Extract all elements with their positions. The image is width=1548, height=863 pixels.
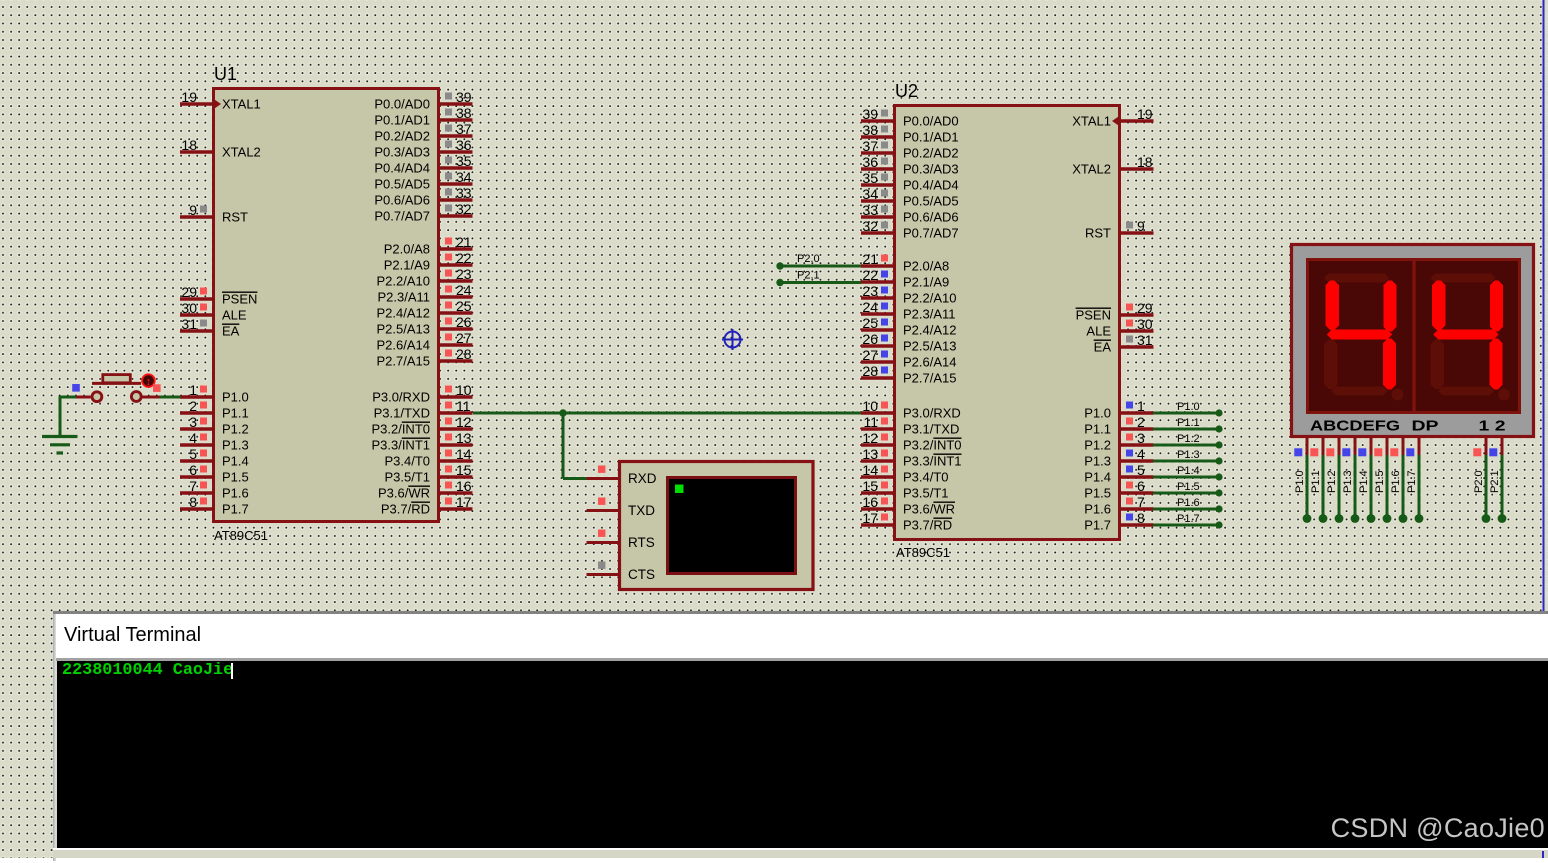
- U2 pin 26 P2.5/A13: [861, 331, 957, 354]
- svg-text:P3.0/RXD: P3.0/RXD: [372, 390, 430, 405]
- svg-text:P2.4/A12: P2.4/A12: [377, 306, 431, 321]
- svg-text:P0.5/AD5: P0.5/AD5: [903, 194, 959, 209]
- svg-text:15: 15: [862, 478, 878, 494]
- svg-text:34: 34: [456, 169, 472, 185]
- wire button to U1 pin 1: [160, 396, 181, 399]
- button interactive marker (red toggle): [142, 374, 155, 387]
- svg-text:P2.7/A15: P2.7/A15: [903, 371, 957, 386]
- svg-text:P3.5/T1: P3.5/T1: [903, 486, 949, 501]
- svg-text:25: 25: [862, 315, 878, 331]
- svg-text:29: 29: [1137, 300, 1153, 316]
- svg-text:39: 39: [862, 106, 878, 122]
- svg-text:P0.6/AD6: P0.6/AD6: [374, 193, 430, 208]
- svg-text:2: 2: [1137, 414, 1145, 430]
- junction dot net P1.7: [1215, 521, 1222, 528]
- svg-text:P3.4/T0: P3.4/T0: [903, 470, 949, 485]
- U2 pin 3 P1.2: [1084, 430, 1153, 453]
- svg-text:CTS: CTS: [628, 567, 655, 582]
- svg-text:1: 1: [1137, 398, 1145, 414]
- svg-text:P3.3/INT1: P3.3/INT1: [371, 438, 430, 453]
- svg-text:P0.4/AD4: P0.4/AD4: [374, 161, 430, 176]
- svg-text:1: 1: [189, 382, 197, 398]
- svg-text:P0.7/AD7: P0.7/AD7: [903, 226, 959, 241]
- U1 pin 23 P2.2/A10: [377, 266, 473, 289]
- svg-text:9: 9: [189, 202, 197, 218]
- U1 pin 30 ALE: [180, 300, 247, 323]
- svg-text:6: 6: [189, 462, 197, 478]
- svg-text:P1.2: P1.2: [1177, 433, 1200, 445]
- svg-text:1 2: 1 2: [1479, 418, 1506, 435]
- svg-text:AT89C51: AT89C51: [896, 545, 950, 560]
- U2 pin 28 P2.7/A15: [861, 363, 957, 386]
- U1 pin 9 RST: [180, 202, 248, 225]
- svg-text:36: 36: [456, 137, 472, 153]
- svg-text:P2.5/A13: P2.5/A13: [377, 322, 431, 337]
- U2 pin 6 P1.5: [1084, 478, 1153, 501]
- svg-text:P0.7/AD7: P0.7/AD7: [374, 209, 430, 224]
- 7-seg pin A with net P1.0: [1294, 438, 1311, 523]
- wire net P2.0 at U2 pin 21: [780, 265, 861, 268]
- svg-text:32: 32: [456, 201, 472, 217]
- svg-text:P1.1: P1.1: [1177, 417, 1200, 429]
- svg-text:2: 2: [189, 398, 197, 414]
- svg-text:5: 5: [189, 446, 197, 462]
- svg-text:ABCDEFG: ABCDEFG: [1310, 418, 1400, 435]
- svg-text:P3.0/RXD: P3.0/RXD: [903, 406, 961, 421]
- svg-text:3: 3: [1137, 430, 1145, 446]
- svg-text:P1.4: P1.4: [1177, 465, 1200, 477]
- svg-text:ALE: ALE: [222, 308, 247, 323]
- svg-text:30: 30: [1137, 316, 1153, 332]
- U1 pin 10 P3.0/RXD: [372, 382, 472, 405]
- svg-text:P1.6: P1.6: [222, 486, 249, 501]
- svg-text:6: 6: [1137, 478, 1145, 494]
- svg-text:P1.1: P1.1: [222, 406, 249, 421]
- 7-seg pin G with net P1.6: [1390, 438, 1407, 523]
- svg-text:AT89C51: AT89C51: [214, 528, 268, 543]
- svg-text:P0.2/AD2: P0.2/AD2: [374, 129, 430, 144]
- U2 pin 34 P0.5/AD5: [861, 186, 959, 209]
- wire net P1.0 at U2 pin 1: [1153, 412, 1219, 415]
- U2 pin 21 P2.0/A8: [861, 251, 949, 274]
- U2 pin 2 P1.1: [1084, 414, 1153, 437]
- svg-text:5: 5: [1137, 462, 1145, 478]
- 7-seg pin F with net P1.5: [1374, 438, 1391, 523]
- U2 pin 15 P3.5/T1: [861, 478, 949, 501]
- svg-text:P1.5: P1.5: [1177, 481, 1200, 493]
- svg-text:29: 29: [181, 284, 197, 300]
- svg-text:P2.2/A10: P2.2/A10: [903, 291, 957, 306]
- svg-text:P2.0/A8: P2.0/A8: [903, 259, 949, 274]
- wire net P1.6 at U2 pin 7: [1153, 508, 1219, 511]
- U2 pin 22 P2.1/A9: [861, 267, 949, 290]
- junction dot net P1.5: [1215, 489, 1222, 496]
- svg-text:16: 16: [862, 494, 878, 510]
- svg-text:4: 4: [189, 430, 197, 446]
- ground symbol: [42, 437, 78, 454]
- svg-text:7: 7: [189, 478, 197, 494]
- svg-text:P1.0: P1.0: [1177, 401, 1200, 413]
- svg-text:PSEN: PSEN: [1076, 308, 1111, 323]
- U1 pin 28 P2.7/A15: [377, 346, 473, 369]
- svg-text:P1.3: P1.3: [1084, 454, 1111, 469]
- svg-text:22: 22: [456, 250, 472, 266]
- svg-text:11: 11: [863, 414, 878, 430]
- svg-text:7: 7: [1137, 494, 1145, 510]
- svg-text:P1.2: P1.2: [1326, 470, 1338, 493]
- svg-text:EA: EA: [222, 324, 240, 339]
- svg-text:P1.7: P1.7: [222, 502, 249, 517]
- svg-text:22: 22: [862, 267, 878, 283]
- 7-seg pin B with net P1.1: [1310, 438, 1327, 523]
- svg-text:XTAL1: XTAL1: [222, 97, 261, 112]
- junction on TXD net: [559, 409, 566, 416]
- junction dot net P1.3: [1215, 457, 1222, 464]
- U2 pin 8 P1.7: [1084, 510, 1153, 533]
- U2 pin 29 PSEN: [1076, 300, 1154, 323]
- svg-text:34: 34: [862, 186, 878, 202]
- U1 pin 17 P3.7/RD: [381, 494, 473, 517]
- wire net P2.1 at U2 pin 22: [780, 281, 861, 284]
- svg-text:P2.0: P2.0: [797, 253, 820, 265]
- svg-text:18: 18: [181, 137, 197, 153]
- state square button right terminal (red): [153, 384, 161, 392]
- svg-text:U1: U1: [214, 64, 237, 84]
- 7-seg digit 1 showing 4: [1324, 274, 1404, 401]
- 7-seg pin C with net P1.2: [1326, 438, 1343, 523]
- svg-text:24: 24: [862, 299, 878, 315]
- svg-text:28: 28: [862, 363, 878, 379]
- U2 pin 38 P0.1/AD1: [861, 122, 959, 145]
- svg-text:U2: U2: [895, 81, 918, 101]
- U2 pin 14 P3.4/T0: [861, 462, 949, 485]
- svg-text:EA: EA: [1094, 340, 1112, 355]
- svg-text:P3.2/INT0: P3.2/INT0: [903, 438, 962, 453]
- svg-text:35: 35: [862, 170, 878, 186]
- svg-text:XTAL1: XTAL1: [1072, 114, 1111, 129]
- svg-text:P2.3/A11: P2.3/A11: [903, 307, 956, 322]
- svg-text:PSEN: PSEN: [222, 292, 257, 307]
- svg-text:21: 21: [862, 251, 878, 267]
- svg-text:33: 33: [456, 185, 472, 201]
- svg-text:P2.1: P2.1: [1489, 470, 1501, 493]
- svg-text:P0.2/AD2: P0.2/AD2: [903, 146, 959, 161]
- Virtual Terminal popup window: [53, 611, 1548, 858]
- U1 pin 21 P2.0/A8: [384, 234, 473, 257]
- U2 pin 25 P2.4/A12: [861, 315, 957, 338]
- svg-text:P1.7: P1.7: [1084, 518, 1111, 533]
- svg-text:27: 27: [456, 330, 472, 346]
- U2 pin 1 P1.0: [1084, 398, 1153, 421]
- svg-text:DP: DP: [1412, 418, 1439, 435]
- svg-text:P2.6/A14: P2.6/A14: [903, 355, 957, 370]
- svg-text:15: 15: [456, 462, 472, 478]
- terminal cursor block (green): [675, 485, 684, 494]
- svg-text:23: 23: [862, 283, 878, 299]
- U1 pin 34 P0.5/AD5: [374, 169, 472, 192]
- svg-text:37: 37: [862, 138, 878, 154]
- U1 pin 31 EA: [180, 316, 240, 339]
- svg-text:19: 19: [1137, 106, 1153, 122]
- svg-text:P1.2: P1.2: [222, 422, 249, 437]
- svg-text:14: 14: [456, 446, 472, 462]
- 7-seg pin DP with net P1.7: [1406, 438, 1423, 523]
- svg-text:21: 21: [456, 234, 472, 250]
- U1 pin 3 P1.2: [180, 414, 249, 437]
- svg-text:10: 10: [862, 398, 878, 414]
- terminal pin RTS: [587, 530, 655, 551]
- U1 pin 24 P2.3/A11: [377, 282, 472, 305]
- svg-text:P1.5: P1.5: [222, 470, 249, 485]
- push button (switch): [76, 375, 160, 402]
- U2 pin 39 P0.0/AD0: [861, 106, 959, 129]
- 7-seg digit-select pin 2 with net P2.1: [1489, 438, 1506, 523]
- junction dot net P1.0: [1215, 409, 1222, 416]
- svg-text:17: 17: [862, 510, 878, 526]
- svg-text:33: 33: [862, 202, 878, 218]
- svg-text:37: 37: [456, 121, 472, 137]
- U1 pin 26 P2.5/A13: [377, 314, 473, 337]
- svg-text:12: 12: [862, 430, 878, 446]
- svg-text:14: 14: [862, 462, 878, 478]
- wire net P1.1 at U2 pin 2: [1153, 428, 1219, 431]
- 7-segment display face: [1308, 260, 1520, 413]
- sheet border (blue page edge line): [1543, 0, 1545, 612]
- svg-text:P3.2/INT0: P3.2/INT0: [371, 422, 430, 437]
- junction dot net P2.0: [776, 262, 783, 269]
- svg-text:P3.6/WR: P3.6/WR: [378, 486, 430, 501]
- svg-text:P2.4/A12: P2.4/A12: [903, 323, 957, 338]
- svg-text:23: 23: [456, 266, 472, 282]
- svg-text:39: 39: [456, 89, 472, 105]
- svg-text:35: 35: [456, 153, 472, 169]
- svg-text:P1.4: P1.4: [1084, 470, 1111, 485]
- U1 pin 29 PSEN: [180, 284, 257, 307]
- svg-text:P3.1/TXD: P3.1/TXD: [374, 406, 430, 421]
- svg-text:18: 18: [1137, 154, 1153, 170]
- svg-text:19: 19: [181, 89, 197, 105]
- U1 pin 7 P1.6: [180, 478, 249, 501]
- svg-text:P1.4: P1.4: [1358, 470, 1370, 493]
- svg-text:P1.7: P1.7: [1177, 513, 1200, 525]
- svg-text:P1.5: P1.5: [1374, 470, 1386, 493]
- svg-text:31: 31: [1137, 332, 1153, 348]
- svg-text:24: 24: [456, 282, 472, 298]
- U2 pin 7 P1.6: [1084, 494, 1153, 517]
- svg-text:P1.4: P1.4: [222, 454, 249, 469]
- 7-seg digit 2 showing 4: [1431, 274, 1511, 401]
- 7-segment digit divider: [1412, 258, 1415, 414]
- svg-text:27: 27: [862, 347, 878, 363]
- svg-text:36: 36: [862, 154, 878, 170]
- U1 pin 27 P2.6/A14: [377, 330, 473, 353]
- svg-text:P1.6: P1.6: [1390, 470, 1402, 493]
- U1 pin 19 XTAL1: [180, 89, 261, 112]
- svg-text:P1.0: P1.0: [1294, 470, 1306, 493]
- svg-text:↕: ↕: [146, 376, 152, 388]
- U2 pin 27 P2.6/A14: [861, 347, 957, 370]
- U1 pin 2 P1.1: [180, 398, 249, 421]
- U1 pin 14 P3.4/T0: [384, 446, 472, 469]
- svg-text:9: 9: [1137, 218, 1145, 234]
- svg-text:P0.0/AD0: P0.0/AD0: [374, 97, 430, 112]
- svg-text:10: 10: [456, 382, 472, 398]
- U1 pin 33 P0.6/AD6: [374, 185, 472, 208]
- junction dot net P1.2: [1215, 441, 1222, 448]
- wire net P1.5 at U2 pin 6: [1153, 492, 1219, 495]
- U2 pin 23 P2.2/A10: [861, 283, 957, 306]
- svg-text:P1.0: P1.0: [1084, 406, 1111, 421]
- svg-text:P3.1/TXD: P3.1/TXD: [903, 422, 959, 437]
- U2 pin 10 P3.0/RXD: [861, 398, 961, 421]
- svg-text:P3.7/RD: P3.7/RD: [903, 518, 952, 533]
- wire ground to button (left segment): [59, 396, 77, 399]
- terminal pin RXD: [587, 466, 657, 487]
- virtual terminal instrument VT1 body: [620, 462, 814, 590]
- U1 pin 4 P1.3: [180, 430, 249, 453]
- svg-text:11: 11: [456, 398, 471, 414]
- state square button left terminal (blue): [72, 384, 80, 392]
- U2 pin 16 P3.6/WR: [861, 494, 955, 517]
- svg-text:16: 16: [456, 478, 472, 494]
- svg-text:P1.7: P1.7: [1406, 470, 1418, 493]
- svg-text:8: 8: [1137, 510, 1145, 526]
- U2 pin 37 P0.2/AD2: [861, 138, 959, 161]
- U1 pin 15 P3.5/T1: [384, 462, 472, 485]
- svg-text:32: 32: [862, 218, 878, 234]
- svg-text:P3.7/RD: P3.7/RD: [381, 502, 430, 517]
- svg-text:P2.0/A8: P2.0/A8: [384, 242, 430, 257]
- svg-text:P1.3: P1.3: [1342, 470, 1354, 493]
- wire branch junction down to terminal RXD (vertical): [562, 413, 565, 479]
- terminal pin TXD: [587, 498, 656, 519]
- svg-text:P2.1/A9: P2.1/A9: [384, 258, 430, 273]
- wire branch to terminal RXD (horizontal): [563, 477, 587, 480]
- svg-text:28: 28: [456, 346, 472, 362]
- 7-seg pin D with net P1.3: [1342, 438, 1359, 523]
- U1 pin 37 P0.2/AD2: [374, 121, 472, 144]
- svg-text:P2.0: P2.0: [1473, 470, 1485, 493]
- wire net TXD: U1 P3.1 to U2 P3.0: [473, 412, 861, 415]
- U1 pin 18 XTAL2: [180, 137, 261, 160]
- svg-text:26: 26: [862, 331, 878, 347]
- svg-text:P0.6/AD6: P0.6/AD6: [903, 210, 959, 225]
- svg-text:P1.5: P1.5: [1084, 486, 1111, 501]
- svg-text:P1.6: P1.6: [1084, 502, 1111, 517]
- U2 pin 11 P3.1/TXD: [861, 414, 959, 437]
- U2 pin 12 P3.2/INT0: [861, 430, 962, 453]
- svg-text:4: 4: [1137, 446, 1145, 462]
- svg-text:ALE: ALE: [1086, 324, 1111, 339]
- svg-text:P2.2/A10: P2.2/A10: [377, 274, 431, 289]
- svg-text:P1.1: P1.1: [1084, 422, 1111, 437]
- U2 pin 13 P3.3/INT1: [861, 446, 962, 469]
- U2 pin 9 RST: [1085, 218, 1154, 241]
- U2 pin 35 P0.4/AD4: [861, 170, 959, 193]
- svg-text:38: 38: [456, 105, 472, 121]
- wire net P1.2 at U2 pin 3: [1153, 444, 1219, 447]
- svg-text:P3.6/WR: P3.6/WR: [903, 502, 955, 517]
- wire ground stem (vertical): [59, 396, 62, 437]
- svg-text:13: 13: [862, 446, 878, 462]
- U1 pin 6 P1.5: [180, 462, 249, 485]
- U2 pin 33 P0.6/AD6: [861, 202, 959, 225]
- svg-text:P3.3/INT1: P3.3/INT1: [903, 454, 962, 469]
- svg-text:XTAL2: XTAL2: [1072, 162, 1111, 177]
- junction dot net P1.4: [1215, 473, 1222, 480]
- U1 pin 32 P0.7/AD7: [374, 201, 472, 224]
- svg-text:P1.3: P1.3: [1177, 449, 1200, 461]
- U1 pin 11 P3.1/TXD: [374, 398, 473, 421]
- svg-text:38: 38: [862, 122, 878, 138]
- U1 pin 35 P0.4/AD4: [374, 153, 472, 176]
- U1 pin 8 P1.7: [180, 494, 249, 517]
- svg-text:P2.3/A11: P2.3/A11: [377, 290, 430, 305]
- U2 pin 24 P2.3/A11: [861, 299, 956, 322]
- svg-text:P3.5/T1: P3.5/T1: [384, 470, 430, 485]
- origin marker (circle-cross): [722, 329, 743, 350]
- svg-text:3: 3: [189, 414, 197, 430]
- svg-text:RST: RST: [222, 210, 248, 225]
- U1 pin 22 P2.1/A9: [384, 250, 473, 273]
- U2 pin 4 P1.3: [1084, 446, 1153, 469]
- U1 pin 38 P0.1/AD1: [374, 105, 472, 128]
- U2 pin 19 XTAL1: [1072, 106, 1153, 129]
- svg-text:26: 26: [456, 314, 472, 330]
- svg-text:P0.3/AD3: P0.3/AD3: [903, 162, 959, 177]
- virtual terminal screen: [668, 478, 796, 574]
- svg-text:P0.1/AD1: P0.1/AD1: [374, 113, 430, 128]
- svg-text:30: 30: [181, 300, 197, 316]
- U2 pin 31 EA: [1094, 332, 1154, 355]
- svg-text:P2.5/A13: P2.5/A13: [903, 339, 957, 354]
- svg-text:25: 25: [456, 298, 472, 314]
- svg-text:13: 13: [456, 430, 472, 446]
- svg-text:8: 8: [189, 494, 197, 510]
- U2 pin 18 XTAL2: [1072, 154, 1153, 177]
- svg-text:RTS: RTS: [628, 535, 655, 550]
- svg-text:P1.3: P1.3: [222, 438, 249, 453]
- svg-text:P3.4/T0: P3.4/T0: [384, 454, 430, 469]
- wire net P1.3 at U2 pin 4: [1153, 460, 1219, 463]
- svg-text:P0.0/AD0: P0.0/AD0: [903, 114, 959, 129]
- svg-text:RXD: RXD: [628, 471, 657, 486]
- svg-text:P0.3/AD3: P0.3/AD3: [374, 145, 430, 160]
- U1 pin 12 P3.2/INT0: [371, 414, 472, 437]
- U1 pin 16 P3.6/WR: [378, 478, 473, 501]
- svg-text:P2.7/A15: P2.7/A15: [377, 354, 431, 369]
- U2 pin 32 P0.7/AD7: [861, 218, 959, 241]
- U2 pin 36 P0.3/AD3: [861, 154, 959, 177]
- terminal pin CTS: [587, 562, 656, 583]
- junction dot net P2.1: [776, 279, 783, 286]
- svg-text:17: 17: [456, 494, 472, 510]
- svg-text:P0.4/AD4: P0.4/AD4: [903, 178, 959, 193]
- junction dot net P1.6: [1215, 505, 1222, 512]
- U1 pin 39 P0.0/AD0: [374, 89, 472, 112]
- svg-text:P1.2: P1.2: [1084, 438, 1111, 453]
- U1 pin 25 P2.4/A12: [377, 298, 473, 321]
- svg-text:P1.1: P1.1: [1310, 470, 1322, 493]
- svg-text:31: 31: [181, 316, 197, 332]
- U2 pin 30 ALE: [1086, 316, 1153, 339]
- 7-seg pin E with net P1.4: [1358, 438, 1375, 523]
- 7-seg digit-select pin 1 with net P2.0: [1473, 438, 1490, 523]
- junction dot net P1.1: [1215, 425, 1222, 432]
- svg-text:P2.6/A14: P2.6/A14: [377, 338, 431, 353]
- svg-text:P2.1: P2.1: [797, 270, 820, 282]
- U1 pin 1 P1.0: [180, 382, 249, 405]
